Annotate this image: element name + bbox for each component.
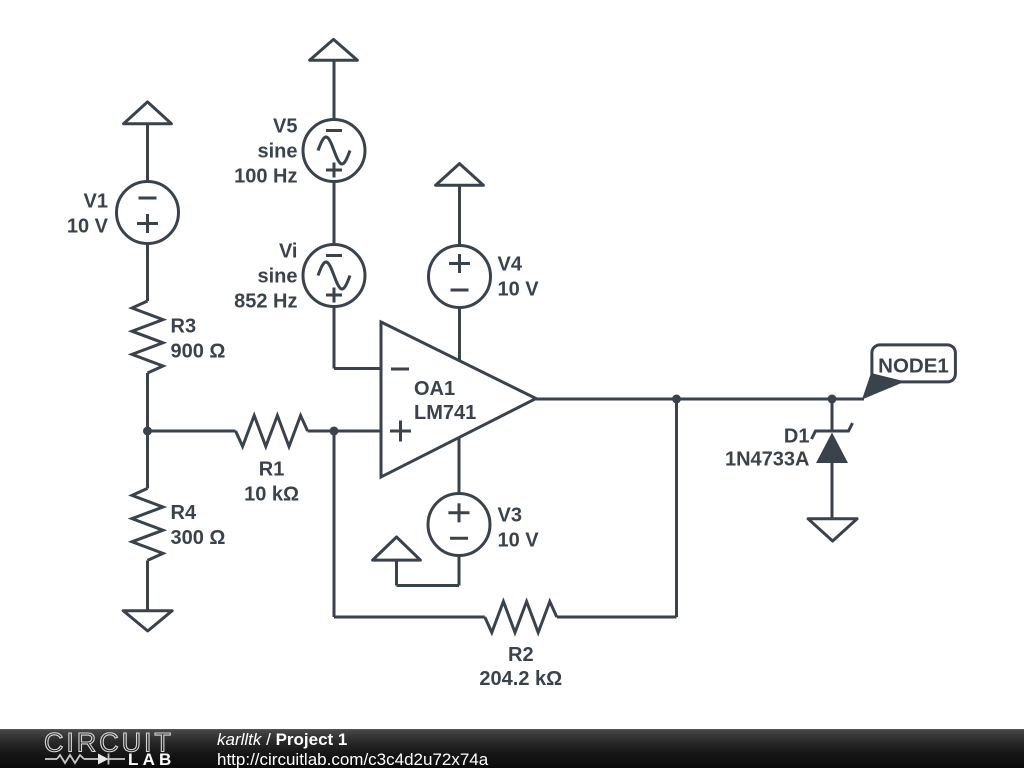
svg-text:LAB: LAB	[128, 750, 176, 768]
svg-text:204.2 kΩ: 204.2 kΩ	[479, 668, 562, 690]
svg-text:V1: V1	[84, 191, 108, 213]
svg-text:300 Ω: 300 Ω	[171, 527, 226, 549]
svg-text:V4: V4	[498, 254, 523, 276]
svg-text:D1: D1	[784, 426, 810, 448]
svg-text:LM741: LM741	[414, 402, 476, 424]
svg-text:10 V: 10 V	[67, 216, 109, 238]
svg-text:100 Hz: 100 Hz	[234, 166, 297, 188]
svg-text:karlltk / Project 1: karlltk / Project 1	[217, 730, 347, 749]
svg-text:1N4733A: 1N4733A	[725, 449, 810, 471]
svg-text:sine: sine	[257, 141, 297, 163]
svg-text:OA1: OA1	[414, 378, 455, 400]
svg-text:V5: V5	[273, 116, 297, 138]
svg-text:R1: R1	[259, 459, 285, 481]
svg-text:R3: R3	[171, 315, 197, 337]
svg-text:R4: R4	[171, 502, 197, 524]
svg-text:10 V: 10 V	[498, 530, 540, 552]
svg-text:sine: sine	[257, 266, 297, 288]
svg-text:V3: V3	[498, 505, 522, 527]
svg-text:852 Hz: 852 Hz	[234, 291, 297, 313]
svg-text:10 V: 10 V	[498, 279, 540, 301]
svg-text:10 kΩ: 10 kΩ	[244, 484, 299, 506]
svg-text:R2: R2	[508, 644, 534, 666]
svg-text:900 Ω: 900 Ω	[171, 340, 226, 362]
svg-text:http://circuitlab.com/c3c4d2u7: http://circuitlab.com/c3c4d2u72x74a	[217, 750, 489, 768]
svg-text:Vi: Vi	[279, 241, 298, 263]
svg-text:NODE1: NODE1	[878, 355, 949, 378]
